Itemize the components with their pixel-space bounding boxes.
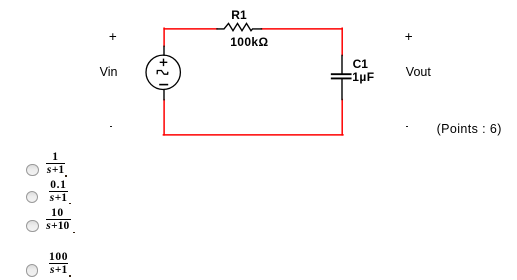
answer fraction 1/(s+1)	[46, 152, 64, 176]
value label 100kΩ	[230, 36, 268, 48]
radio option 2	[26, 191, 39, 204]
wire top-right segment (R1 right to node Vout top)	[262, 28, 343, 30]
answer fraction 100/(s+1)	[49, 252, 68, 276]
capacitor C1 bottom plate	[332, 77, 351, 79]
answer fraction 0.1/(s+1)	[49, 180, 68, 204]
radio option 3	[26, 220, 39, 233]
capacitor C1 top plate	[332, 73, 351, 75]
node label - (left)	[110, 126, 113, 128]
period after fraction 4	[69, 275, 71, 277]
source V1 top lead	[163, 46, 165, 55]
capacitor C1 bottom lead	[341, 79, 343, 99]
node label + (left)	[109, 31, 117, 44]
points text	[437, 123, 502, 136]
period after fraction 3	[73, 232, 75, 234]
resistor R1 (zigzag with leads)	[217, 23, 262, 30]
answer fraction 10/(s+10)	[46, 208, 71, 232]
capacitor C1 top lead	[341, 55, 343, 73]
period after fraction 2	[69, 203, 71, 205]
node label Vout	[406, 66, 431, 79]
label C1	[353, 58, 368, 70]
source V1 plus mark	[160, 59, 166, 65]
value label 1µF	[352, 71, 374, 83]
wire right upper segment	[341, 28, 343, 55]
period after fraction 1	[65, 175, 67, 177]
node label + (right)	[405, 31, 413, 44]
wire left upper segment	[163, 28, 165, 46]
wire left lower segment	[163, 100, 165, 135]
node label - (right)	[406, 126, 409, 128]
wire right lower segment	[341, 100, 343, 135]
radio option 1	[26, 164, 39, 177]
label R1	[231, 9, 246, 21]
radio option 4	[26, 264, 39, 277]
source V1 bottom lead	[163, 90, 165, 100]
source V1 minus mark	[160, 84, 167, 86]
source V1 circle	[146, 55, 180, 89]
wire bottom segment	[163, 134, 343, 136]
wire top-left segment (node Vin top to R1 left)	[164, 28, 217, 30]
node label Vin	[100, 66, 118, 79]
source V1 sine mark	[157, 71, 168, 75]
